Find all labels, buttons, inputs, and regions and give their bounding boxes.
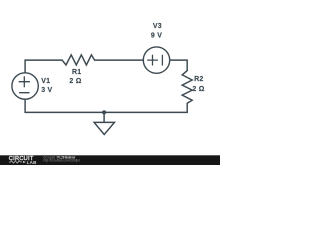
voltage source V1 xyxy=(12,73,38,99)
svg-text:2 Ω: 2 Ω xyxy=(69,78,81,85)
wire from R2 down to bottom rail xyxy=(186,103,188,112)
ground triangle xyxy=(94,122,114,134)
CircuitLab logo resistor zigzag xyxy=(9,161,22,163)
svg-text:V1: V1 xyxy=(41,78,50,85)
V1 plus sign xyxy=(19,77,29,87)
svg-text:2 Ω: 2 Ω xyxy=(192,86,204,93)
resistor R2 xyxy=(182,71,192,104)
wire bottom rail xyxy=(25,111,187,113)
wire from R1 to V3 xyxy=(95,59,144,61)
resistor R1 xyxy=(62,55,95,65)
V3 plus sign xyxy=(148,55,158,65)
wire top-left from V1 to R1 xyxy=(25,60,62,73)
wire from V3 to R2 xyxy=(170,60,187,71)
ground stem xyxy=(103,112,105,122)
svg-text:http://circuitlab.com/c626jhd: http://circuitlab.com/c626jhd xyxy=(43,158,79,162)
voltage source V3 xyxy=(143,47,169,73)
svg-text:9 V: 9 V xyxy=(151,32,162,39)
V1 minus sign xyxy=(20,92,29,94)
CircuitLab logo diode arrow xyxy=(23,161,25,163)
svg-text:3 V: 3 V xyxy=(41,87,52,94)
svg-text:R1: R1 xyxy=(72,69,81,76)
V3 minus bar xyxy=(161,55,163,65)
node junction dot xyxy=(102,110,106,114)
svg-text:R2: R2 xyxy=(194,76,203,83)
svg-text:V3: V3 xyxy=(153,23,162,30)
watermark bar xyxy=(0,155,220,165)
svg-text:LAB: LAB xyxy=(27,160,37,165)
wire V1 bottom lead xyxy=(24,99,26,112)
